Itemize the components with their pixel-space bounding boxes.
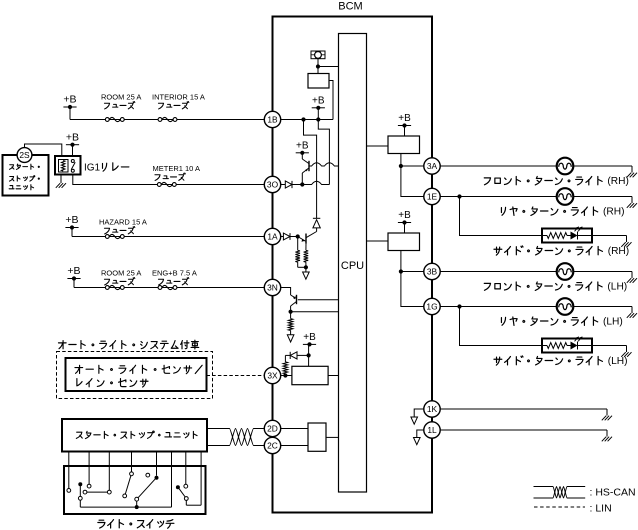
svg-text:1B: 1B bbox=[267, 115, 278, 125]
svg-text:1E: 1E bbox=[427, 192, 438, 202]
svg-text:1A: 1A bbox=[267, 232, 278, 242]
svg-text:CPU: CPU bbox=[341, 260, 364, 272]
svg-text:(RH): (RH) bbox=[608, 246, 630, 257]
svg-text:1L: 1L bbox=[427, 425, 437, 435]
svg-text:+B: +B bbox=[398, 113, 411, 124]
svg-text:+B: +B bbox=[296, 140, 309, 151]
svg-text:(RH): (RH) bbox=[607, 176, 629, 187]
svg-text:: LIN: : LIN bbox=[590, 503, 612, 515]
svg-text:(LH): (LH) bbox=[608, 356, 628, 367]
svg-text:BCM: BCM bbox=[338, 1, 362, 13]
svg-text:2S: 2S bbox=[19, 150, 30, 160]
svg-text:+B: +B bbox=[312, 95, 325, 106]
svg-text:3O: 3O bbox=[267, 180, 279, 190]
svg-text:3N: 3N bbox=[267, 283, 278, 293]
svg-text:+B: +B bbox=[67, 265, 80, 277]
svg-text:+B: +B bbox=[63, 94, 76, 106]
svg-text:3A: 3A bbox=[427, 161, 438, 171]
svg-text:+B: +B bbox=[303, 332, 316, 343]
svg-text:METER1 10 A: METER1 10 A bbox=[153, 164, 201, 173]
svg-text:(LH): (LH) bbox=[607, 282, 627, 293]
svg-text:ROOM 25 A: ROOM 25 A bbox=[101, 93, 141, 102]
svg-text:INTERIOR 15 A: INTERIOR 15 A bbox=[152, 93, 205, 102]
svg-text:1K: 1K bbox=[427, 404, 438, 414]
svg-text:+B: +B bbox=[398, 210, 411, 221]
svg-text:+B: +B bbox=[66, 131, 79, 143]
svg-text:+B: +B bbox=[65, 214, 78, 226]
svg-text:: HS-CAN: : HS-CAN bbox=[590, 487, 636, 499]
svg-text:IG1: IG1 bbox=[84, 163, 101, 174]
svg-text:3B: 3B bbox=[427, 267, 438, 277]
svg-text:(RH): (RH) bbox=[603, 207, 625, 218]
svg-text:HAZARD 15 A: HAZARD 15 A bbox=[99, 218, 147, 227]
svg-text:ROOM 25 A: ROOM 25 A bbox=[101, 269, 141, 278]
svg-text:(LH): (LH) bbox=[603, 317, 623, 328]
svg-text:3X: 3X bbox=[267, 371, 278, 381]
svg-text:ENG+B 7.5 A: ENG+B 7.5 A bbox=[152, 269, 197, 278]
svg-text:2C: 2C bbox=[267, 441, 278, 451]
svg-text:2D: 2D bbox=[267, 424, 278, 434]
svg-text:1G: 1G bbox=[426, 302, 437, 312]
